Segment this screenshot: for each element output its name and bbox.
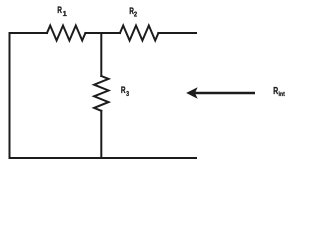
wire top right segment xyxy=(158,32,196,34)
svg-text:3: 3 xyxy=(126,89,129,98)
svg-text:int: int xyxy=(279,91,286,98)
resistor R1 xyxy=(47,26,85,41)
svg-text:R: R xyxy=(273,86,278,97)
node junction R1-R2-R3 xyxy=(100,33,102,76)
wire left vertical xyxy=(9,33,11,158)
wire between R1 and R2 xyxy=(85,32,120,34)
wire R3 bottom lead xyxy=(100,111,102,158)
wire top left segment xyxy=(10,32,48,34)
arrow Rint measurement xyxy=(187,88,255,97)
svg-text:R: R xyxy=(57,5,62,15)
wire bottom horizontal xyxy=(10,157,197,159)
svg-text:2: 2 xyxy=(134,9,137,18)
resistor R3 xyxy=(94,76,108,111)
resistor R2 xyxy=(120,26,158,41)
